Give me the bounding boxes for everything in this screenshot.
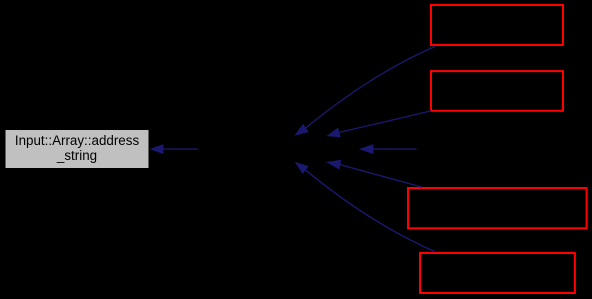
- svg-text:_string: _string: [56, 148, 97, 163]
- svg-text:Input::Array::address: Input::Array::address: [15, 133, 140, 148]
